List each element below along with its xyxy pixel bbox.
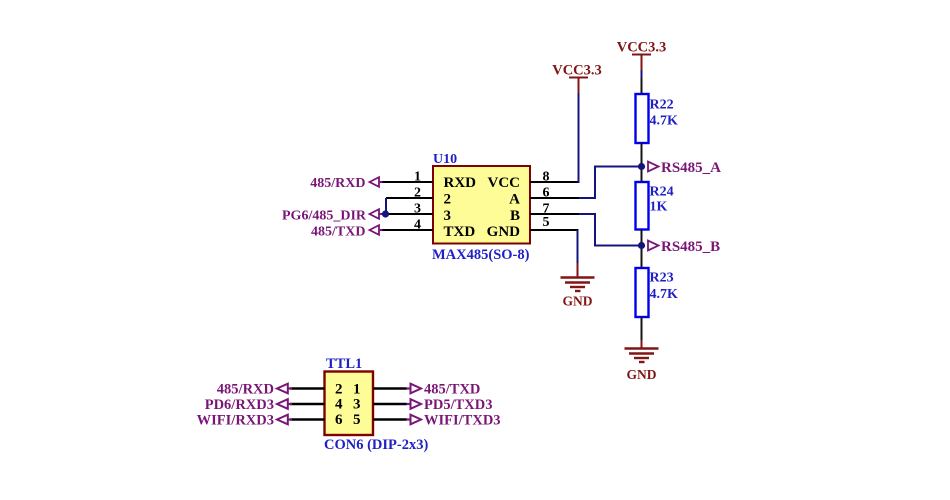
IC U10 MAX485 body [433,166,530,244]
svg-text:8: 8 [543,170,550,185]
wire VCC to R22 [641,78,643,94]
wire pin7 to node B [579,214,641,246]
svg-text:3: 3 [444,208,452,224]
pin 4 wire [381,229,433,231]
connector right wire row3 [373,418,407,420]
svg-text:5: 5 [543,215,550,230]
resistor R24 [636,182,649,230]
wire pin6 to node A [579,167,641,199]
port PD5/TXD3 stub [407,403,412,405]
svg-text:WIFI/TXD3: WIFI/TXD3 [424,413,501,429]
svg-text:RXD: RXD [444,175,477,191]
svg-text:4.7K: 4.7K [650,114,679,129]
svg-text:PD5/TXD3: PD5/TXD3 [424,397,492,413]
ground GND right [625,340,659,382]
svg-text:TTL1: TTL1 [326,356,362,372]
svg-text:5: 5 [353,412,361,428]
svg-text:A: A [509,192,520,208]
svg-text:TXD: TXD [444,224,476,240]
port 485/TXD triangle [370,225,380,235]
pin 8 wire [530,181,579,183]
power VCC3.3 left bar [569,77,588,79]
junction node A dot [638,163,645,170]
power VCC3.3 top bar [632,54,651,56]
port WIFI/TXD3 stub [407,418,412,420]
wire R23 to GND [641,317,643,346]
wire pin5 to GND [577,230,579,265]
svg-text:WIFI/RXD3: WIFI/RXD3 [197,413,274,429]
svg-text:6: 6 [543,186,550,201]
svg-text:2: 2 [444,192,452,208]
node RS485_A triangle [648,162,659,172]
svg-text:4.7K: 4.7K [650,287,679,302]
svg-text:RS485_B: RS485_B [661,239,720,255]
node RS485_B triangle [648,241,659,251]
resistor R23 [636,268,649,317]
port PG6/485_DIR stub [379,213,383,215]
power VCC3.3 left stub [578,78,580,94]
port 485/TXD stub [379,229,383,231]
pin 7 wire [530,213,580,215]
port PD6/RXD3 triangle [277,399,288,409]
pin 5 wire [530,229,579,231]
pin 2 wire [386,197,433,199]
svg-text:VCC: VCC [488,175,521,191]
svg-text:VCC3.3: VCC3.3 [552,63,602,79]
port 485/TXD triangle [411,384,422,394]
svg-text:1K: 1K [650,200,668,215]
svg-text:R24: R24 [650,185,674,200]
wire VCC3.3 to R22 navy seg [641,70,643,78]
port PG6/485_DIR triangle [370,209,380,219]
port stub row1 [288,387,292,389]
connector left wire row3 [290,418,325,420]
junction node B dot [638,242,645,249]
svg-text:485/RXD: 485/RXD [310,176,365,191]
connector right wire row2 [373,403,407,405]
connector left wire row2 [290,403,325,405]
wire pin2 to pin3 vertical [385,198,387,214]
svg-text:485/TXD: 485/TXD [311,225,365,240]
wire VCC to pin8 [578,93,580,183]
pin 1 wire [381,181,433,183]
junction dot PG6 node [382,210,389,217]
port 485/RXD bottom triangle [277,384,288,394]
svg-text:MAX485(SO-8): MAX485(SO-8) [432,247,530,263]
svg-text:4: 4 [335,397,343,413]
port WIFI/TXD3 triangle [411,415,422,425]
svg-text:GND: GND [487,224,521,240]
port stub row2 [288,403,292,405]
svg-text:VCC3.3: VCC3.3 [617,40,667,56]
svg-text:4: 4 [414,218,421,233]
power VCC3.3 top stub [641,55,643,71]
svg-text:485/TXD: 485/TXD [424,382,480,398]
svg-text:1: 1 [414,170,421,185]
pin 3 wire [381,213,433,215]
port stub row3 [288,418,292,420]
svg-text:3: 3 [353,397,361,413]
wire R22 to node A [641,143,643,182]
port 485/TXD stub [407,387,412,389]
svg-text:485/RXD: 485/RXD [217,382,274,398]
port PD5/TXD3 triangle [411,399,422,409]
svg-text:PG6/485_DIR: PG6/485_DIR [282,209,367,224]
pin 6 wire [530,197,580,199]
connector left wire row1 [290,387,325,389]
wire R24 to node B [641,230,643,269]
svg-text:R23: R23 [650,271,674,286]
svg-text:2: 2 [414,186,421,201]
svg-text:GND: GND [563,294,593,309]
svg-text:GND: GND [627,367,657,382]
svg-text:2: 2 [335,382,343,398]
svg-text:PD6/RXD3: PD6/RXD3 [205,397,274,413]
svg-text:6: 6 [335,412,343,428]
port 485/RXD stub [379,181,383,183]
port WIFI/RXD3 triangle [277,415,288,425]
svg-text:CON6 (DIP-2x3): CON6 (DIP-2x3) [324,437,428,453]
resistor R22 [636,94,649,143]
svg-text:RS485_A: RS485_A [661,160,721,176]
ground GND left [561,263,595,309]
svg-text:U10: U10 [433,152,457,167]
svg-text:B: B [510,208,520,224]
connector TTL1 body [325,372,374,436]
port 485/RXD triangle [370,177,380,187]
svg-text:R22: R22 [650,98,674,113]
connector right wire row1 [373,387,407,389]
svg-text:1: 1 [353,382,361,398]
svg-text:3: 3 [414,202,421,217]
